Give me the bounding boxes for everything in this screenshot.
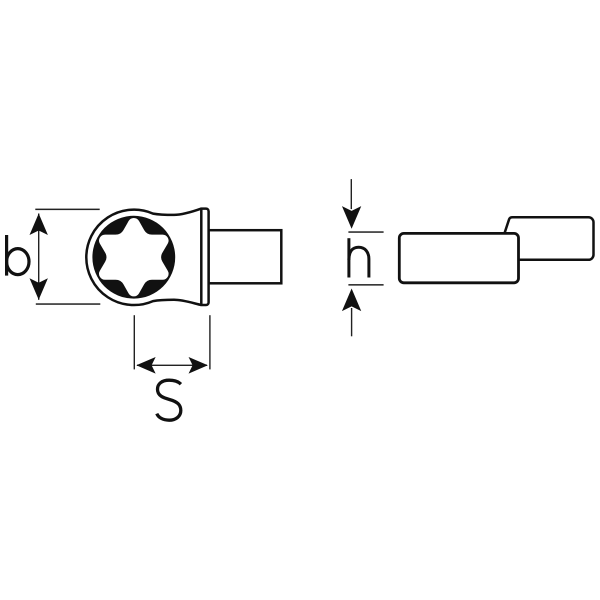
- ring head outer contour with neck flare: [86, 209, 201, 305]
- S arrowhead left: [136, 357, 155, 374]
- b top tick: [35, 209, 99, 211]
- h upper leader line: [351, 179, 352, 209]
- S arrowhead right: [189, 357, 208, 374]
- b dimension line: [38, 214, 39, 300]
- h lower leader line: [351, 308, 352, 336]
- h arrowhead up: [342, 289, 361, 312]
- torx ring (black annulus with hexalobular opening): [92, 216, 175, 299]
- label b: [7, 235, 29, 276]
- S right extension line: [209, 315, 210, 369]
- label h: [349, 238, 369, 277]
- tang side view (front rounded block): [399, 233, 518, 282]
- S left extension line: [134, 315, 135, 369]
- head side view (rear rounded block) with neck diagonal: [504, 217, 593, 259]
- tang (rectangular drive end, front view): [209, 230, 282, 283]
- h arrowhead down: [342, 206, 361, 229]
- h bottom tick: [348, 284, 383, 286]
- b bottom tick: [36, 303, 101, 305]
- label S: [157, 380, 181, 420]
- b arrowhead down: [30, 278, 48, 300]
- h top tick: [348, 231, 383, 233]
- collar (vertical flange between head and tang): [201, 209, 208, 305]
- b arrowhead up: [30, 214, 48, 236]
- S dimension line: [137, 365, 207, 366]
